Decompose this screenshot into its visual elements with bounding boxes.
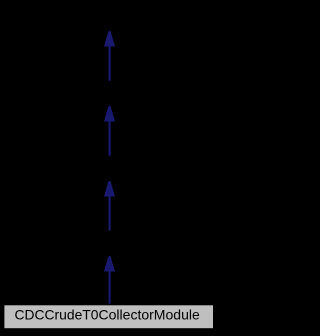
inheritance arrow 1 (topmost) xyxy=(104,31,115,81)
inheritance arrow 3 xyxy=(104,181,115,231)
svg-text:CDCCrudeT0: CDCCrudeT0 xyxy=(15,306,99,322)
inheritance arrow 2 xyxy=(104,106,115,156)
inheritance arrow 4 (into node box) xyxy=(104,256,115,304)
svg-text:CollectorModule: CollectorModule xyxy=(99,306,201,322)
node label CDCCrudeT0CollectorModule xyxy=(15,306,201,322)
node box CDCCrudeT0CollectorModule xyxy=(4,305,214,329)
